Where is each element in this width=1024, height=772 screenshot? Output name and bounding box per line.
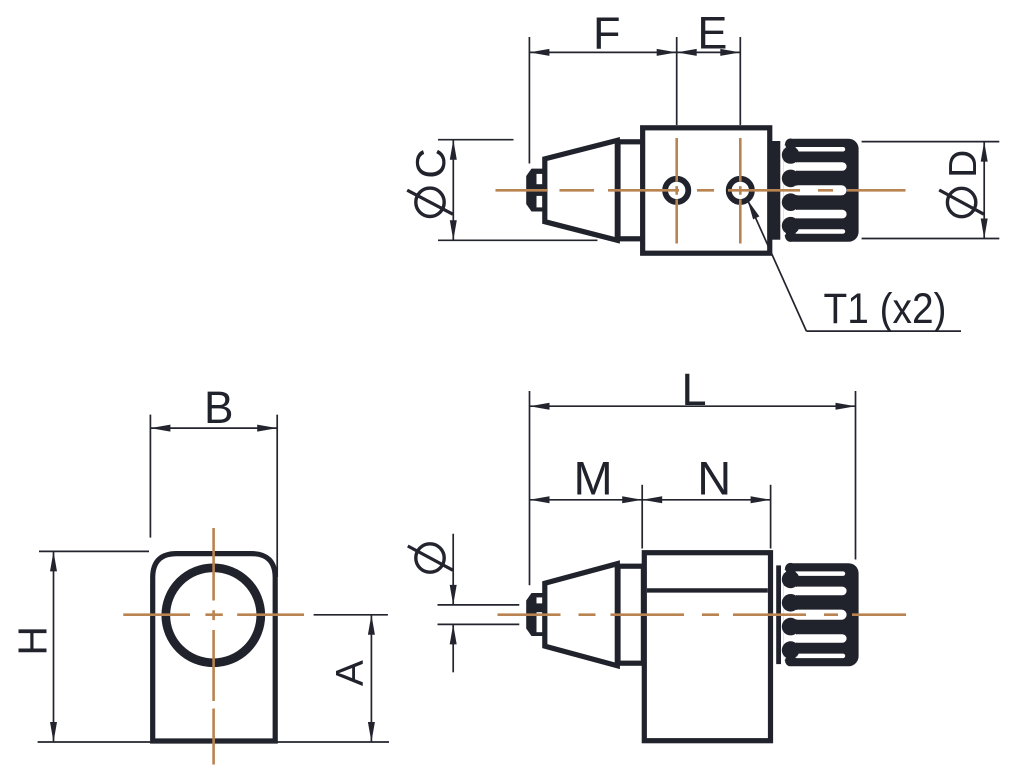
main body bottom view [644, 553, 770, 741]
knurl flange bottom view [776, 565, 781, 664]
svg-text:L: L [681, 364, 706, 415]
dimension line D [983, 142, 985, 239]
centerline horizontal top view [496, 189, 906, 192]
tip cap bottom view [526, 593, 543, 636]
knurl slots [793, 147, 847, 234]
small diameter dim extension lines [438, 604, 520, 606]
extension line L right [855, 391, 857, 560]
centerline horizontal front view [123, 613, 304, 616]
dimension line F [529, 51, 676, 53]
extension line L left [529, 391, 531, 585]
hole T1 #1 [665, 179, 688, 202]
centerline hole 2 [739, 138, 742, 244]
extension line F/E middle (hole 1) [676, 37, 678, 125]
svg-text:A: A [329, 660, 372, 686]
extension line M/N middle [641, 485, 643, 549]
chuck nose tip cap [526, 169, 543, 212]
small diameter dim line with outside arrows [452, 534, 454, 605]
dimension B [149, 415, 151, 538]
svg-text:M: M [574, 451, 613, 504]
dimension line M [530, 499, 643, 501]
extension line E right (hole 2) [739, 37, 741, 125]
svg-text:F: F [593, 7, 621, 58]
knurl body bottom view [784, 563, 859, 666]
dimension A [314, 614, 388, 616]
main body [643, 128, 770, 253]
extension lines diameter C [438, 139, 514, 141]
centerline vertical front view [212, 528, 215, 765]
dimension H [39, 550, 149, 552]
knurl slot wedge gaps bottom view [784, 570, 796, 660]
cone section bottom view [545, 564, 618, 666]
dimension line C [452, 140, 454, 241]
extension line F left [528, 37, 530, 164]
svg-text:T1 (x2): T1 (x2) [824, 285, 947, 333]
svg-text:H: H [10, 626, 56, 656]
knurl ridge bumps [782, 139, 800, 242]
leader T1 [748, 200, 760, 220]
cylinder collar bottom view [618, 566, 643, 663]
svg-text:D: D [942, 150, 985, 178]
centerline hole 1 [675, 138, 678, 244]
cone section [545, 140, 618, 240]
svg-text:B: B [204, 382, 234, 433]
dimension line L [530, 405, 856, 407]
centerline horizontal bottom view [498, 613, 907, 616]
knurl slot wedge gaps [784, 145, 796, 235]
dimension line E [677, 51, 741, 53]
diameter symbol of C [416, 188, 444, 216]
knurl flange [772, 141, 780, 240]
svg-text:N: N [697, 451, 731, 504]
bore ring [166, 568, 261, 663]
knurl slots bottom view [793, 571, 847, 658]
svg-text:E: E [697, 7, 727, 58]
extension line N right [770, 485, 772, 549]
knurl body [784, 139, 859, 242]
cylinder collar [618, 142, 643, 239]
svg-text:C: C [407, 148, 454, 178]
diameter symbol of D [947, 188, 975, 216]
tombstone body [153, 554, 276, 741]
dimension line N [642, 499, 770, 501]
extension lines diameter D [862, 141, 1000, 143]
small diameter symbol [416, 544, 444, 572]
knurl ridge bumps bottom view [782, 563, 800, 666]
hole T1 #2 [729, 179, 752, 202]
tangency line in body [647, 588, 768, 592]
